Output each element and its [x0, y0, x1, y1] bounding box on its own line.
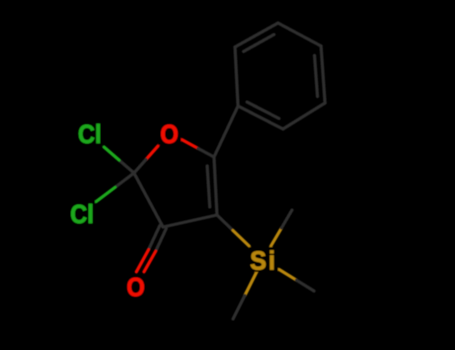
wire O1-C2 red half — [146, 146, 158, 160]
wire benzene inner double V4-V5 — [315, 56, 318, 97]
wire C5-phenyl ipso bond — [214, 106, 238, 157]
wire C2-Cl1 carbon half — [119, 160, 134, 173]
wire C4-C5 inner double line — [207, 166, 210, 207]
wire Si-M3 olive half — [279, 269, 297, 280]
wire benzene edge V1-V2 — [235, 47, 238, 106]
wire O1-C5 carbon half — [198, 148, 214, 157]
svg-text:O: O — [127, 274, 145, 302]
wire O1-C5 red half — [182, 140, 198, 149]
wire Si-M2 carbon half — [233, 296, 245, 320]
wire C2-Cl2 carbon half — [115, 173, 134, 187]
wire C2-Cl2 green half — [96, 187, 115, 201]
wire C2-C3 — [134, 173, 163, 227]
wire benzene edge V3-V4 — [278, 23, 321, 46]
wire C3=O3 line B red half — [136, 250, 148, 272]
svg-text:Cl: Cl — [78, 121, 101, 149]
wire C2-Cl1 green half — [104, 147, 119, 160]
wire C3=O3 line A carbon half — [156, 229, 167, 252]
wire benzene inner double V2-V3 — [244, 35, 275, 52]
wire benzene edge V5-V6 — [283, 103, 325, 129]
svg-text:O: O — [160, 121, 178, 149]
wire Si-M1 olive half — [271, 228, 282, 246]
node O3 carbonyl oxygen label — [124, 274, 147, 302]
wire O1-C2 carbon half — [134, 160, 146, 174]
node Cl1 chlorine label — [75, 121, 102, 150]
wire benzene edge V4-V5 — [321, 46, 325, 103]
wire C4-Si carbon half — [217, 215, 233, 231]
wire Si-M3 carbon half — [297, 280, 315, 291]
wire C4-C5 — [214, 157, 217, 215]
svg-text:Cl: Cl — [70, 201, 93, 229]
wire Si-M2 olive half — [245, 272, 257, 296]
wire C3=O3 line A red half — [144, 251, 156, 271]
wire Si-M1 carbon half — [282, 210, 293, 228]
wire C3=O3 line B carbon half — [149, 226, 160, 250]
wire benzene edge V2-V3 — [235, 23, 278, 47]
wire benzene inner double V6-V1 — [247, 102, 279, 119]
node Cl2 chlorine label — [68, 200, 95, 229]
wire benzene edge V6-V1 — [238, 106, 283, 129]
wire C3-C4 — [163, 215, 217, 227]
svg-text:Si: Si — [250, 247, 277, 276]
node O1 ring oxygen label — [158, 121, 181, 150]
node Si silicon label — [249, 247, 278, 276]
wire C4-Si olive half — [233, 231, 249, 247]
